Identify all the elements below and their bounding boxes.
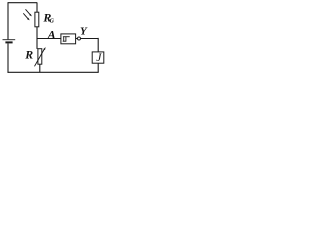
svg-text:G: G <box>50 18 55 24</box>
svg-text:J: J <box>96 52 102 64</box>
svg-text:A: A <box>47 27 56 41</box>
svg-text:R: R <box>24 47 33 61</box>
